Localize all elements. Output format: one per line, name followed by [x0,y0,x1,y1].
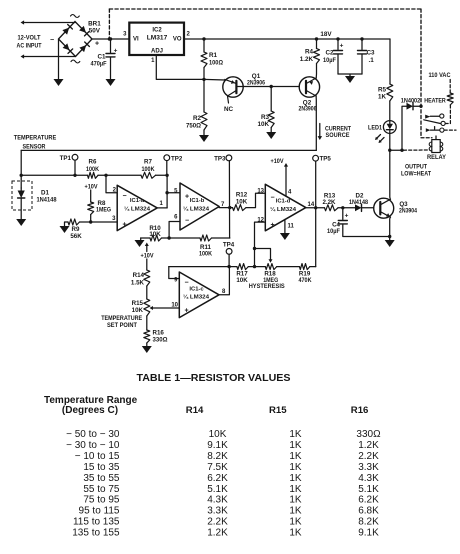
svg-text:+10V: +10V [85,184,99,191]
svg-text:R1: R1 [209,52,218,59]
svg-text:6.8K: 6.8K [358,506,379,517]
svg-text:10K: 10K [149,231,161,238]
svg-text:OUTPUT: OUTPUT [405,164,427,171]
svg-text:LM317: LM317 [147,35,168,42]
resistor R3 10K [257,87,274,133]
wire bridge plus to LM317 VI [92,37,129,40]
svg-text:12-VOLT: 12-VOLT [18,35,41,42]
resistor R17 10K [236,264,248,284]
svg-text:2: 2 [187,32,191,38]
wire sensor node vertical [20,150,23,188]
wire IC1-a output [157,207,167,209]
wire LM317 VO 18V rail [184,37,390,40]
LED1 [383,121,396,134]
svg-text:+: + [185,194,189,201]
svg-text:6: 6 [174,215,178,221]
wire IC1-b pin6 feedback [167,222,180,240]
svg-text:1K: 1K [289,473,302,484]
svg-text:+: + [345,213,349,220]
svg-text:D1: D1 [41,190,49,197]
wire IC1-d pin4 +10V [271,158,289,196]
table header temperature range [44,395,138,416]
svg-text:4.3K: 4.3K [358,473,379,484]
wiper R15 to IC1-c pin10 [150,306,180,310]
label RELAY [427,154,447,161]
regulator IC2 LM317 [123,23,190,64]
svg-text:35 to 55: 35 to 55 [83,473,120,484]
svg-text:+: + [95,41,99,48]
ground R10 [135,240,145,247]
svg-text:100K: 100K [142,166,155,173]
svg-text:HEATER: HEATER [424,97,446,104]
svg-text:TP2: TP2 [171,156,183,163]
resistor R6 100K [86,159,99,179]
svg-text:1.2K: 1.2K [358,440,379,451]
svg-text:2N3906: 2N3906 [299,106,317,113]
wire Q3 emitter to ground [388,217,391,240]
test point TP4 [223,242,235,267]
resistor R1 100ohm [201,39,223,79]
svg-text:3.3K: 3.3K [207,506,228,517]
svg-text:R16: R16 [351,405,369,416]
svg-text:9.1K: 9.1K [207,440,228,451]
test point TP3 [214,155,232,238]
svg-text:NC: NC [224,106,234,113]
wire R5 to LED1 [389,101,391,121]
op-amp IC1-a LM324 [112,185,163,230]
svg-text:TP3: TP3 [214,156,226,163]
label 12-VOLT AC INPUT [17,35,42,50]
wire IC1-c output [219,267,229,295]
wire IC1-d pin12 [253,222,265,267]
wire Q2 emitter to R4 [315,64,317,79]
svg-text:R7: R7 [144,159,152,166]
svg-text:3: 3 [123,32,127,38]
svg-text:C1: C1 [97,54,106,61]
wire C2 C3 common to ground [338,74,362,76]
svg-text:+: + [340,43,344,50]
svg-text:TP1: TP1 [60,155,72,162]
label +10V R14 [141,243,155,260]
wire heater to contact dashed [445,105,450,124]
svg-text:1K: 1K [289,451,302,462]
svg-text:IC1-c: IC1-c [189,287,204,293]
label Q1 2N3906 [247,73,265,87]
op-amp IC1-c LM324 [171,272,226,318]
op-amp IC1-d LM324 [257,184,315,231]
wire hysteresis wiper [255,249,273,263]
capacitor C3 .1 [358,39,376,74]
svg-text:BR1: BR1 [88,20,101,27]
relay contact set 2 [426,127,456,133]
svg-text:4.3K: 4.3K [207,495,228,506]
svg-text:R6: R6 [89,159,97,166]
svg-text:55 to 75: 55 to 75 [83,484,120,495]
wire R6R7 node to IC1-a pin2 [106,175,117,192]
svg-text:1K: 1K [289,495,302,506]
test point TP2 [164,155,183,176]
resistor R8 1MEG [88,190,111,222]
transistor Q2 2N3906 [299,77,319,97]
svg-text:5: 5 [174,188,178,194]
label NC [224,106,234,113]
svg-text:10K: 10K [209,429,227,440]
svg-text:115 to 135: 115 to 135 [73,517,120,528]
svg-text:330Ω: 330Ω [356,429,381,440]
svg-text:−: − [185,218,189,225]
svg-text:−: − [185,280,189,287]
svg-text:SENSOR: SENSOR [23,144,46,151]
ground R16 [142,346,152,353]
svg-text:50V: 50V [89,28,101,35]
svg-text:− 50 to − 30: − 50 to − 30 [66,429,120,440]
svg-text:¼ LM324: ¼ LM324 [270,206,297,213]
svg-text:+: + [185,308,189,315]
svg-text:330Ω: 330Ω [153,337,168,344]
svg-text:R3: R3 [261,114,270,121]
label Q3 2N3904 [399,201,417,215]
wire node to relay coil dashed [404,149,430,151]
potentiometer R15 10K [132,299,150,316]
relay contact set 1 [424,114,445,126]
wire LM317 ADJ [156,55,204,79]
label LED1 [368,125,382,132]
svg-text:VI: VI [133,37,139,43]
svg-text:IC1-b: IC1-b [190,198,205,204]
svg-text:ADJ: ADJ [151,49,163,55]
resistor R13 2.2K [322,192,355,211]
svg-text:TP5: TP5 [320,156,332,163]
svg-text:1N4002: 1N4002 [401,98,421,105]
svg-text:8.2K: 8.2K [358,517,379,528]
svg-text:56K: 56K [70,233,82,240]
ground IC1-d pin11 [280,233,290,240]
heater resistor [424,93,453,105]
wire Q2 collector current source [315,96,317,151]
svg-text:HYSTERESIS: HYSTERESIS [249,284,285,290]
ground R9 [60,222,70,233]
wire IC1-d output [306,206,325,209]
svg-text:−: − [271,195,275,202]
svg-text:+: + [123,222,127,229]
label 110 VAC [429,72,451,79]
svg-text:+: + [114,48,118,55]
svg-text:135 to 155: 135 to 155 [72,527,120,538]
resistor R16 330ohm [144,316,168,346]
svg-text:8.2K: 8.2K [207,451,228,462]
svg-text:+10V: +10V [141,253,155,260]
svg-text:AC INPUT: AC INPUT [17,43,42,50]
svg-text:R15: R15 [269,405,287,416]
resistor R9 56K [65,219,117,240]
test point TP5 [313,155,332,266]
svg-text:10µF: 10µF [327,228,340,235]
svg-text:R16: R16 [153,330,165,337]
svg-text:R15: R15 [132,300,144,307]
dashed supply rail [108,9,423,138]
diode D2 1N4148 [349,192,374,211]
svg-text:4: 4 [288,190,292,196]
ground D1 [16,219,26,226]
svg-text:10K: 10K [132,307,144,314]
svg-text:TABLE 1—RESISTOR VALUES: TABLE 1—RESISTOR VALUES [137,373,291,384]
label minus bridge [50,37,54,44]
AC squiggle top [71,15,80,18]
svg-text:1K: 1K [289,440,302,451]
svg-text:95 to 115: 95 to 115 [79,506,120,517]
wire sensor rail [21,149,316,151]
wire Q1 base to Q2 base [237,85,300,88]
label CURRENT SOURCE [325,126,351,140]
svg-text:TEMPERATURE: TEMPERATURE [14,135,57,142]
svg-text:1K: 1K [289,506,302,517]
svg-text:RELAY: RELAY [427,154,447,161]
svg-text:110 VAC: 110 VAC [429,72,451,79]
table header R14 [186,405,204,416]
svg-text:¼ LM324: ¼ LM324 [183,294,210,301]
svg-text:11: 11 [288,224,295,230]
svg-text:6.2K: 6.2K [207,473,228,484]
resistor R5 1K [378,39,393,101]
ground Q3 [385,240,395,247]
table header R16 [351,405,369,416]
wire hysteresis rail [169,265,316,268]
label +10V R8 [85,184,99,191]
current source arrow [318,124,323,141]
svg-text:1K: 1K [289,517,302,528]
wire junction to Q1 emitter [204,78,225,81]
svg-text:2.2K: 2.2K [207,517,228,528]
svg-text:.1: .1 [369,57,375,64]
resistor R7 100K [141,159,156,179]
svg-text:1MEG: 1MEG [263,277,278,284]
svg-text:5.1K: 5.1K [358,484,379,495]
relay coil [421,136,443,153]
op-amp IC1-b LM324 [174,183,225,230]
svg-text:2N3904: 2N3904 [399,208,417,215]
svg-text:10K: 10K [236,198,248,205]
svg-text:R14: R14 [133,272,145,279]
table title [137,373,291,384]
svg-text:− 10 to 15: − 10 to 15 [75,451,120,462]
svg-text:10µF: 10µF [323,57,336,64]
label D1 1N4148 [37,190,58,204]
svg-text:10K: 10K [257,121,269,128]
svg-text:1: 1 [160,201,164,207]
svg-text:15 to 35: 15 to 35 [83,462,120,473]
svg-text:14: 14 [308,202,315,208]
ground bridge [54,79,64,86]
wire to IC1-b pin5 [167,192,180,194]
resistor R19 470K [299,264,312,284]
svg-text:1.2K: 1.2K [207,527,228,538]
svg-text:1.5K: 1.5K [131,279,145,286]
wire signal row [21,174,169,177]
resistor R10 10K [141,225,169,241]
svg-text:VO: VO [173,37,182,43]
svg-text:13: 13 [257,189,264,195]
label plus bridge [95,41,99,48]
capacitor C2 10uF [323,39,344,74]
ground C1 [106,79,116,86]
label OUTPUT LOW=HEAT [401,164,431,178]
svg-text:LED1: LED1 [368,125,382,132]
resistor R11 100K [169,235,230,258]
svg-text:470µF: 470µF [91,61,107,68]
label BR1 50V [88,20,101,34]
svg-text:¼ LM324: ¼ LM324 [183,206,210,213]
wire AC input top with arrow [21,20,76,24]
svg-text:100K: 100K [199,251,212,258]
svg-text:1K: 1K [289,429,302,440]
capacitor C1 470uF [91,39,118,79]
transistor Q3 2N3904 [374,198,394,218]
svg-text:IC1-a: IC1-a [130,198,145,204]
svg-text:SOURCE: SOURCE [326,132,350,139]
label 18V [320,31,332,38]
svg-text:7.5K: 7.5K [207,462,228,473]
svg-text:1K: 1K [289,527,302,538]
svg-text:750Ω: 750Ω [186,123,201,130]
label Q2 2N3906 [299,100,317,113]
sensor dashed box [12,181,32,210]
wire IC1-b output [219,206,232,209]
svg-text:TP4: TP4 [223,242,235,249]
potentiometer R18 1MEG [249,264,285,290]
svg-text:100Ω: 100Ω [209,60,223,67]
resistor R4 1.2K [300,39,320,64]
svg-text:75 to 95: 75 to 95 [83,495,120,506]
svg-text:1K: 1K [289,462,302,473]
wire bridge minus to ground [58,39,60,79]
wire R12 to IC1-d pin13 [246,193,265,207]
svg-text:+10V: +10V [271,158,285,165]
svg-text:1N4148: 1N4148 [349,199,368,206]
svg-text:100K: 100K [86,166,99,173]
svg-text:C2: C2 [325,50,334,57]
svg-text:9.1K: 9.1K [358,527,379,538]
svg-text:2.2K: 2.2K [358,451,379,462]
svg-text:18V: 18V [320,31,332,38]
ground C2 C3 [345,76,355,83]
diode D1 1N4148 sensor [18,188,25,219]
bridge rectifier BR1 [59,22,93,57]
wire 110VAC to heater dashed [449,80,451,94]
AC squiggle bottom [71,60,80,63]
svg-text:6.2K: 6.2K [358,495,379,506]
svg-text:C3: C3 [367,50,376,57]
svg-text:R14: R14 [186,405,204,416]
svg-text:10: 10 [171,302,178,308]
transistor Q1 2N3906 [223,77,243,103]
table header R15 [269,405,287,416]
svg-text:SET POINT: SET POINT [107,322,137,329]
svg-text:10K: 10K [236,277,248,284]
svg-text:−: − [123,193,127,200]
LED1 light arrows [375,135,384,144]
svg-text:3.3K: 3.3K [358,462,379,473]
wire IC1-c pin9 [169,267,180,279]
wire AC input bottom with arrow [21,54,76,58]
svg-text:1K: 1K [289,484,302,495]
table resistor values rows [66,429,381,538]
svg-text:3: 3 [112,216,116,222]
node ADJ-R1-R2 junction [202,78,205,81]
ground R3 [266,132,276,139]
svg-text:1.2K: 1.2K [300,56,314,63]
svg-text:IC2: IC2 [152,28,162,34]
svg-text:R5: R5 [378,87,387,94]
label TEMPERATURE SET POINT [101,315,142,329]
resistor R2 750ohm [186,79,207,135]
svg-text:1MEG: 1MEG [96,207,111,214]
svg-text:− 30 to − 10: − 30 to − 10 [66,440,120,451]
wire IC1-d pin11 ground [284,220,286,234]
svg-text:(Degrees C): (Degrees C) [62,405,118,416]
test point TP1 [60,154,78,175]
svg-text:470K: 470K [299,277,312,284]
svg-text:2.2K: 2.2K [322,199,336,206]
ground R2 [199,135,209,142]
svg-text:¼ LM324: ¼ LM324 [124,206,151,213]
svg-text:−: − [50,37,54,44]
svg-text:R9: R9 [72,226,80,233]
wire LED node [388,133,404,152]
wire Q3 collector [389,150,392,199]
svg-text:5.1K: 5.1K [207,484,228,495]
svg-text:LOW=HEAT: LOW=HEAT [401,171,431,178]
svg-text:R4: R4 [305,49,314,56]
resistor R12 10K [233,192,248,211]
svg-text:2N3906: 2N3906 [247,80,265,87]
diode D3 1N4002 flyback [401,98,421,151]
svg-text:1N4148: 1N4148 [37,197,58,204]
resistor R14 1.5K [131,259,150,299]
label TEMPERATURE SENSOR [14,135,57,151]
svg-text:1K: 1K [378,94,387,101]
svg-text:R2: R2 [193,115,202,122]
svg-text:1: 1 [151,58,155,64]
capacitor C4 10uF [327,208,390,237]
svg-text:TEMPERATURE: TEMPERATURE [101,315,142,322]
svg-text:IC1-d: IC1-d [276,199,291,205]
svg-text:8: 8 [222,289,226,295]
svg-text:+: + [271,222,275,229]
wire TP2 node vertical [165,175,168,208]
